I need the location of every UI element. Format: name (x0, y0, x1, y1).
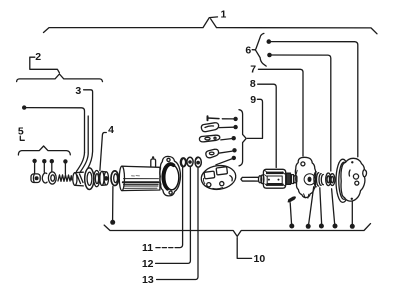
washer (94, 171, 100, 187)
wire from dot to lever (26, 108, 84, 153)
svg-text:4: 4 (108, 124, 114, 136)
cotter pin (288, 196, 297, 202)
brush end plate (295, 157, 316, 198)
brace 9 (239, 110, 246, 166)
ring 13 (195, 157, 201, 167)
flanged washer (85, 168, 94, 190)
shaft end washer and nut (291, 175, 297, 184)
svg-text:12: 12 (142, 258, 154, 270)
pointer dot: slide washer (110, 220, 115, 225)
conical spring (314, 172, 323, 187)
wire 6b to washers (272, 55, 331, 171)
brush (9c) (199, 135, 219, 142)
brace 6 (255, 33, 266, 66)
brace 2 (17, 74, 103, 82)
connector to brace 2 (30, 57, 60, 73)
ring 11 (181, 158, 186, 166)
svg-text:3: 3 (75, 85, 81, 97)
callout line 3 (84, 90, 93, 169)
nut (part 5a) (31, 174, 40, 183)
wire 12 to ring (156, 167, 191, 263)
svg-text:5: 5 (18, 126, 24, 138)
node dot (group 2 pointer) (22, 105, 26, 109)
brush lead rod (9a) (208, 116, 220, 120)
brush (9b) (201, 123, 218, 132)
wire 7 to brush plate (258, 69, 303, 156)
svg-text:8: 8 (250, 78, 256, 90)
connector to label 10 (237, 238, 251, 259)
group-6 dot a (267, 39, 272, 44)
armature shaft (241, 175, 264, 184)
connector tick 5 (20, 136, 24, 140)
lever arm (76, 116, 88, 173)
wire 9 to brace (247, 99, 262, 138)
bushing (part 4) (100, 171, 109, 185)
tab washer (part 5c) (48, 172, 56, 184)
brace 5 (18, 146, 70, 155)
svg-text:7: 7 (250, 63, 256, 75)
slide washer (111, 171, 119, 186)
brace 10 (104, 224, 370, 237)
group-5 pointer dots and wires (32, 159, 36, 163)
brush holder (9d) (206, 149, 219, 158)
end flange (160, 156, 180, 196)
ring 12 (187, 157, 193, 166)
end cover face (341, 158, 367, 201)
group-6 dot b (267, 53, 272, 58)
svg-text:10: 10 (254, 253, 266, 265)
end cover rim (336, 159, 350, 202)
spring (part 5d) (58, 175, 72, 181)
wire 11 to ring (156, 247, 180, 249)
svg-text:11: 11 (142, 242, 153, 254)
wire 13 to ring (157, 168, 198, 280)
lever pivot boss (73, 172, 84, 186)
svg-text:2: 2 (35, 51, 41, 63)
armature core (263, 169, 285, 188)
commutator (287, 173, 291, 184)
svg-text:6: 6 (245, 44, 251, 56)
wire 6a to end cover (271, 42, 358, 157)
callout line 4 (100, 133, 106, 171)
bottom pointer dots (289, 224, 294, 229)
wire 8 to armature (258, 84, 277, 167)
callout bracket 1 (44, 17, 378, 34)
svg-text:1: 1 (220, 9, 226, 21)
motor body (119, 156, 160, 190)
svg-text:13: 13 (142, 274, 154, 286)
brush plate oval (9e) (200, 164, 237, 192)
group-9 dots and wires (233, 117, 237, 121)
c-clip (part 5b) (42, 173, 47, 183)
svg-text:9: 9 (250, 94, 256, 106)
thrust washers (326, 173, 335, 186)
